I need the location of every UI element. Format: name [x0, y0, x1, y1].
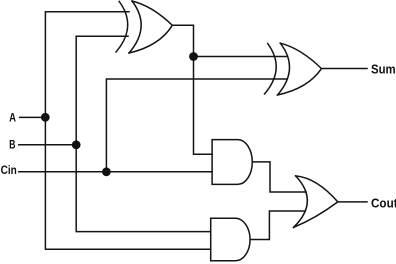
and-gate U4 — [211, 218, 250, 260]
wire OR output to Cout — [338, 201, 367, 203]
wire XOR1 output to node and AND1 — [172, 25, 212, 154]
or-gate U5 (Cout) — [294, 176, 338, 228]
wire Cin branch up to XOR2 — [106, 79, 287, 172]
node dot XOR1-out — [189, 52, 198, 61]
svg-text:Sum: Sum — [371, 63, 396, 77]
xor-gate U2 (Sum) — [265, 43, 322, 95]
node dot Cin — [102, 167, 111, 176]
xor-gate U1 (A xor B) — [116, 1, 172, 53]
wire AND1 output to OR top input — [252, 162, 306, 192]
node dot A — [41, 113, 50, 122]
node dot B — [72, 140, 81, 149]
svg-text:Cout: Cout — [371, 196, 396, 210]
wire Cin horizontal to AND1 — [19, 171, 212, 173]
svg-text:B: B — [9, 139, 15, 151]
wire XOR2 output to Sum — [322, 68, 368, 70]
and-gate U3 — [212, 140, 252, 185]
svg-text:A: A — [9, 113, 16, 125]
wire B stub — [19, 144, 76, 146]
wire AND2 output to OR bottom input — [250, 211, 305, 240]
wire A stub — [20, 116, 46, 118]
wire A vertical bus — [45, 12, 210, 250]
svg-text:Cin: Cin — [1, 165, 17, 177]
wire node to XOR2 top input — [194, 56, 288, 58]
wire B vertical bus — [76, 36, 211, 231]
